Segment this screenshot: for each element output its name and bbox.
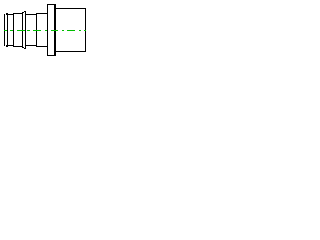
background [0, 0, 90, 60]
shank S5 bottom line row46 [37, 46, 47, 47]
barb2 peak pixel top (24,11) [24, 11, 25, 12]
barb2 slope pixel top (23,12) [23, 12, 24, 13]
barb2 slope pixel bottom (23,47) [23, 47, 24, 48]
centerline dash 9 (long) [67, 30, 75, 31]
shank S2 top line row13 [14, 13, 22, 14]
shank S1 bottom line row45 [8, 45, 13, 46]
centerline dash 11 [84, 30, 86, 31]
collar top line row4 [48, 4, 54, 5]
centerline dash 8 [62, 30, 64, 31]
CAD thumbnail: barbed insert fitting (side view) with dashed centerline [0, 0, 90, 60]
shank S2 bottom line row46 [14, 46, 22, 47]
tube bottom line row51 [56, 51, 85, 52]
tube top line row8 [56, 8, 85, 9]
centerline dash 10 [79, 30, 81, 31]
step vertical x36 [36, 13, 37, 47]
step vertical x13 [13, 13, 14, 47]
centerline dash 1 [4, 30, 7, 31]
centerline dash 5 (long) [33, 30, 41, 31]
centerline dash 4 [27, 30, 30, 31]
barb1 face vertical x7 [7, 13, 8, 47]
centerline dash 3 (long) [17, 30, 25, 31]
collar right face vertical x54-55 (2px) [54, 4, 56, 56]
barb1 slope nub bottom (6,45)-(6,46) [6, 45, 7, 47]
centerline dash 2 [10, 30, 13, 31]
barb2 peak pixel bottom (24,48) [24, 48, 25, 49]
collar bottom line row55 [48, 55, 54, 56]
tube right end vertical x85 [85, 8, 86, 52]
barb1 slope nub top (6,13)-(6,14) [6, 13, 7, 15]
collar left face vertical x47 [47, 4, 48, 56]
barb2 base vertical x22 [22, 12, 23, 48]
shank S4 bottom line row45 [26, 45, 36, 46]
barb2 face vertical x25 [25, 11, 26, 49]
green dashed centerline row30 [4, 30, 86, 31]
left end face vertical x4 [4, 14, 5, 46]
centerline dash 6 [45, 30, 47, 31]
shank S5 top line row13 [37, 13, 47, 14]
centerline dash 7 (long) [51, 30, 58, 31]
shank S1 top line row14 [8, 14, 13, 15]
shank S4 top line row14 [26, 14, 36, 15]
